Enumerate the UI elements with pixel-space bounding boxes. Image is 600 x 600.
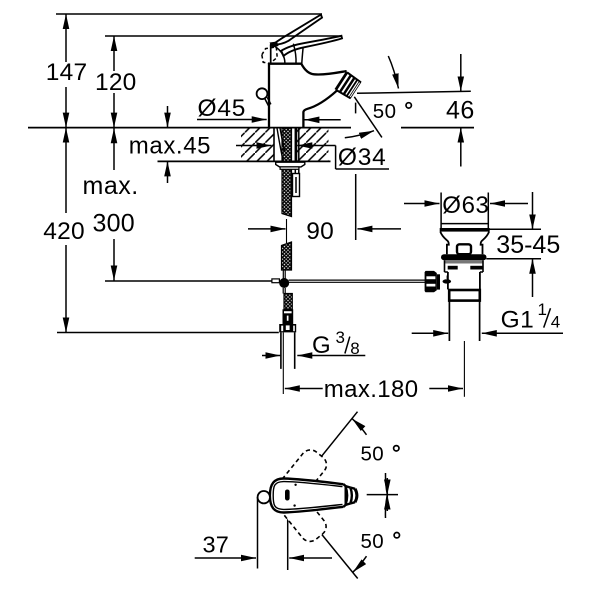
svg-text:Ø63: Ø63 <box>442 192 489 219</box>
svg-text:37: 37 <box>203 532 230 558</box>
svg-text:G1: G1 <box>501 307 535 334</box>
svg-text:300: 300 <box>93 210 135 238</box>
svg-text:8: 8 <box>350 339 359 358</box>
svg-text:120: 120 <box>95 69 136 96</box>
svg-text:max.180: max.180 <box>324 376 419 403</box>
svg-text:90: 90 <box>306 218 334 245</box>
svg-text:147: 147 <box>46 59 87 86</box>
svg-text:Ø34: Ø34 <box>338 144 387 171</box>
svg-text:3: 3 <box>336 328 345 347</box>
svg-text:4: 4 <box>551 313 560 332</box>
svg-text:max.45: max.45 <box>129 133 211 160</box>
svg-text:46: 46 <box>446 97 475 125</box>
svg-text:max.: max. <box>83 172 139 200</box>
svg-text:420: 420 <box>43 218 84 245</box>
svg-text:50: 50 <box>361 443 385 466</box>
svg-text:35-45: 35-45 <box>496 231 560 259</box>
svg-text:Ø45: Ø45 <box>198 95 247 122</box>
svg-text:50: 50 <box>361 530 385 553</box>
svg-text:G: G <box>312 332 331 359</box>
svg-text:1: 1 <box>538 300 547 319</box>
svg-text:50: 50 <box>373 100 397 123</box>
